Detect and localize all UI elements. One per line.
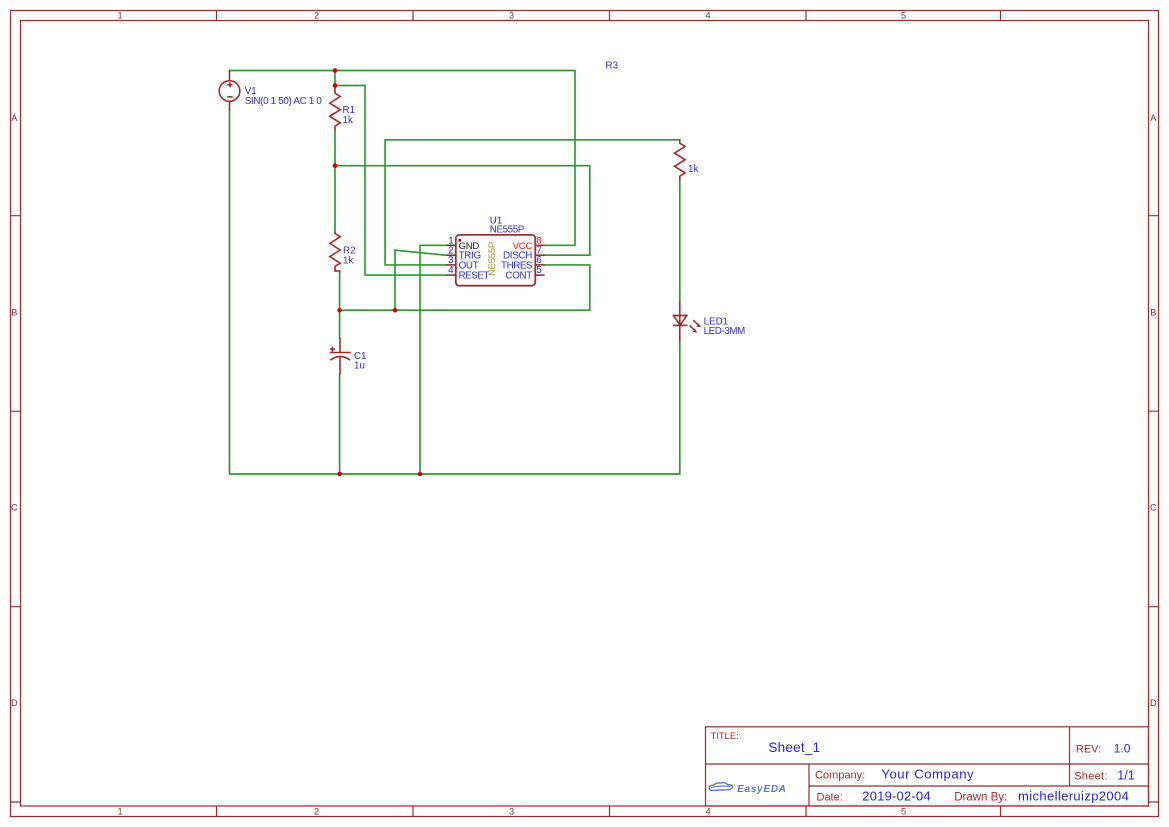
svg-text:R3: R3 xyxy=(606,60,619,71)
svg-text:5: 5 xyxy=(901,10,906,20)
svg-text:michelleruizp2004: michelleruizp2004 xyxy=(1018,788,1129,803)
junction node R1/R2/DISCH xyxy=(333,163,338,168)
capacitor C1 xyxy=(330,338,351,375)
junction node TRIG branch xyxy=(393,308,398,313)
svg-text:4: 4 xyxy=(705,10,710,20)
voltage source V1 xyxy=(219,71,240,111)
junction node R2 bottom / C1 / THRES xyxy=(337,308,342,313)
svg-text:2019-02-04: 2019-02-04 xyxy=(862,788,931,803)
title block dividers xyxy=(706,727,1149,806)
svg-text:EasyEDA: EasyEDA xyxy=(737,784,787,795)
pin 5 stub xyxy=(535,274,544,276)
junction node C1 bottom on ground rail xyxy=(337,472,342,477)
svg-text:4: 4 xyxy=(705,807,710,817)
svg-text:4: 4 xyxy=(448,265,454,276)
svg-text:2: 2 xyxy=(314,10,319,20)
svg-text:REV:: REV: xyxy=(1076,744,1101,756)
svg-text:1: 1 xyxy=(448,235,453,246)
svg-text:8: 8 xyxy=(536,235,541,246)
pin 6 stub xyxy=(535,264,544,266)
wire OUT net: pin 3 to R3 top xyxy=(385,140,680,265)
svg-text:5: 5 xyxy=(901,807,906,817)
resistor R2 xyxy=(330,232,340,273)
svg-text:3: 3 xyxy=(509,10,514,20)
pin 1 stub xyxy=(446,244,456,246)
pin 3 stub xyxy=(446,264,456,266)
svg-text:1k: 1k xyxy=(343,115,353,126)
svg-text:2: 2 xyxy=(314,807,319,817)
resistor R3 xyxy=(675,140,686,180)
frame row ticks left xyxy=(11,216,21,802)
svg-text:Your Company: Your Company xyxy=(881,767,974,782)
svg-text:5: 5 xyxy=(536,265,542,276)
junction node at R1 top on VCC rail xyxy=(333,68,338,73)
wire THRES net: pin 6 to cap node xyxy=(340,265,590,310)
junction node GND wire on ground rail xyxy=(418,472,423,477)
wire RESET net: junction to pin 4 xyxy=(335,86,446,276)
svg-text:1: 1 xyxy=(117,10,122,20)
frame row ticks right xyxy=(1149,216,1159,802)
resistor R1 xyxy=(330,88,340,131)
svg-text:1/1: 1/1 xyxy=(1117,768,1134,782)
LED LED1 xyxy=(673,301,701,341)
svg-text:1k: 1k xyxy=(343,255,353,266)
svg-text:Sheet_1: Sheet_1 xyxy=(768,740,820,755)
svg-text:C: C xyxy=(11,502,18,512)
pin 4 stub xyxy=(446,274,456,276)
junction node R1 top / RESET branch xyxy=(333,83,338,88)
wire R2 bottom to junction xyxy=(339,272,341,310)
frame column ticks bottom xyxy=(217,806,1001,817)
svg-text:A: A xyxy=(1150,113,1157,123)
svg-text:1.0: 1.0 xyxy=(1114,742,1131,756)
wire ground bottom rail: V1 bottom to LED bottom xyxy=(230,110,680,474)
svg-text:TITLE:: TITLE: xyxy=(711,730,739,741)
svg-text:NE555P: NE555P xyxy=(487,242,498,276)
svg-text:SIN(0 1 50) AC 1 0: SIN(0 1 50) AC 1 0 xyxy=(245,96,323,107)
wire DISCH net: R1/R2 junction to pin 7 xyxy=(335,166,590,256)
svg-text:A: A xyxy=(11,113,18,123)
svg-text:NE555P: NE555P xyxy=(490,224,525,235)
op-amp U1 555 timer body xyxy=(456,235,536,286)
EasyEDA logo xyxy=(709,783,787,795)
wire VCC net: V1 top to R1 top to pin 8 xyxy=(230,71,576,246)
wire R3 bottom to LED top xyxy=(679,180,681,301)
wire TRIG net: junction up and diagonal to pin 2 xyxy=(395,250,446,310)
wire R1 top drop xyxy=(334,71,336,89)
svg-text:LED-3MM: LED-3MM xyxy=(704,326,746,337)
pin 8 stub xyxy=(535,244,544,246)
svg-text:D: D xyxy=(11,698,18,708)
svg-text:1: 1 xyxy=(117,807,122,817)
svg-text:1u: 1u xyxy=(354,361,365,372)
svg-text:CONT: CONT xyxy=(505,270,532,281)
svg-text:B: B xyxy=(11,307,17,317)
svg-text:Drawn By:: Drawn By: xyxy=(954,791,1007,803)
svg-text:Sheet:: Sheet: xyxy=(1074,770,1107,782)
pin 2 stub xyxy=(446,254,456,256)
wire C1 bottom xyxy=(339,374,341,474)
wire GND net: pin 1 left and down xyxy=(420,245,446,474)
svg-text:D: D xyxy=(1150,698,1157,708)
svg-text:C: C xyxy=(1150,502,1157,512)
svg-text:1k: 1k xyxy=(688,164,698,175)
pin 7 stub xyxy=(535,254,544,256)
frame column ticks top xyxy=(217,11,1001,21)
title block outline xyxy=(706,727,1149,806)
svg-text:RESET: RESET xyxy=(459,270,490,281)
svg-text:3: 3 xyxy=(509,807,514,817)
svg-text:Company:: Company: xyxy=(815,770,865,782)
wire R1 bottom to R2 top xyxy=(334,130,336,232)
wire junction to C1 top xyxy=(339,310,341,338)
svg-text:Date:: Date: xyxy=(817,791,843,803)
svg-text:B: B xyxy=(1150,307,1156,317)
